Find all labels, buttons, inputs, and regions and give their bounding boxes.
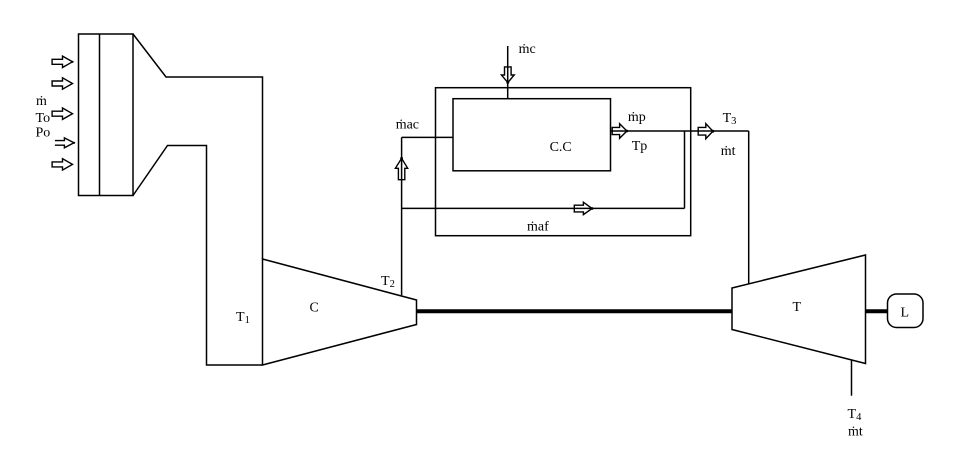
svg-text:ṁaf: ṁaf [527, 220, 549, 235]
load box L [888, 294, 924, 328]
svg-text:ṁc: ṁc [519, 42, 536, 57]
svg-text:Po: Po [36, 126, 51, 141]
compressor C [263, 259, 417, 365]
svg-text:C: C [310, 301, 319, 316]
junction dot mac arrow tip [400, 157, 403, 160]
junction dot maf arrow tip [591, 207, 594, 210]
svg-text:To: To [36, 111, 51, 126]
svg-text:C.C: C.C [550, 140, 572, 155]
svg-text:T: T [793, 300, 802, 315]
inlet screen rectangle [79, 34, 134, 196]
junction dot mp arrow tip [626, 130, 629, 133]
svg-text:L: L [901, 305, 910, 320]
svg-text:ṁt: ṁt [721, 144, 736, 159]
svg-text:Tp: Tp [632, 139, 648, 154]
fuel mc down arrow [501, 67, 514, 83]
inlet flow arrow 1 [52, 56, 72, 67]
combustor outer casing box [436, 88, 691, 236]
inlet flow arrow 2 [52, 78, 72, 89]
inlet screen divider line [99, 34, 101, 196]
mp arrow at C.C outlet [612, 124, 627, 139]
maf arrow [574, 202, 592, 214]
inlet flow arrow 4 (open tail) [55, 138, 74, 148]
T3 arrow at casing outlet [698, 124, 713, 139]
intake duct inner wall [133, 146, 263, 366]
maf line vertical up to mp line [684, 131, 686, 208]
T4 exhaust line [851, 360, 853, 396]
inlet flow arrow 3 [52, 108, 72, 119]
shaft compressor-turbine [417, 309, 733, 313]
inlet flow arrow 5 [52, 159, 72, 170]
junction dot mc arrow tip [506, 81, 509, 84]
svg-text:ṁac: ṁac [396, 118, 419, 133]
junction dot inlet arrow 4 tip [73, 142, 75, 144]
svg-text:ṁ: ṁ [36, 94, 47, 109]
junction dot inlet arrow 1 tip [71, 61, 73, 63]
junction dot T3 arrow tip [712, 130, 715, 133]
T3 line down to turbine [748, 131, 750, 284]
turbine T [732, 255, 866, 364]
svg-text:ṁt: ṁt [848, 425, 863, 440]
intake duct outer wall [133, 34, 263, 259]
compressor air line mac vertical [401, 137, 403, 295]
shaft turbine-load [866, 309, 888, 313]
product gas line mp / T3 horizontal [611, 130, 749, 132]
mac line horizontal into C.C [402, 136, 453, 138]
svg-text:ṁp: ṁp [628, 110, 646, 125]
combustion chamber C.C box [453, 99, 611, 171]
mac up arrow [395, 158, 407, 179]
fuel line mc [507, 46, 509, 99]
bypass air line maf horizontal [402, 207, 685, 209]
